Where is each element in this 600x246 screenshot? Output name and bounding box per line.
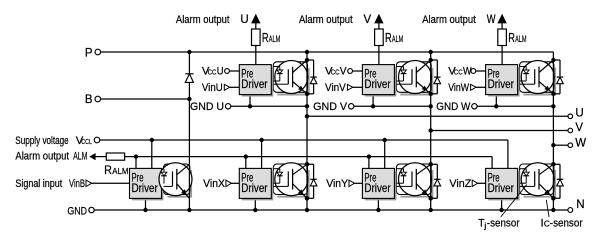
pre-driver box Z [488, 171, 519, 200]
alarm left arrow [89, 153, 95, 160]
wire brake emitter to N rail [188, 198, 190, 210]
wire low-side Vcc stub [507, 140, 509, 168]
freewheel diode Z [553, 163, 560, 165]
svg-text:VinV: VinV [325, 82, 346, 94]
IGBT circle U [275, 61, 308, 94]
svg-text:CC: CC [454, 68, 463, 77]
svg-text:CC: CC [331, 68, 340, 77]
svg-text:ALM: ALM [269, 34, 280, 44]
Tj sensor diode U [273, 66, 280, 68]
svg-text:VinU: VinU [202, 82, 223, 94]
IGBT symbol V [396, 83, 412, 85]
svg-text:VinZ: VinZ [449, 178, 471, 190]
svg-text:W: W [487, 14, 496, 26]
resistor RALM V [375, 29, 384, 46]
svg-text:U: U [240, 14, 248, 26]
wire N / GND rail [94, 209, 567, 211]
svg-text:Driver: Driver [488, 181, 514, 195]
svg-text:U: U [575, 108, 583, 120]
terminal GND [89, 207, 94, 212]
svg-text:VinX: VinX [203, 178, 225, 190]
svg-text:Signal input: Signal input [15, 178, 63, 190]
wire GND W line [477, 105, 553, 107]
pin VCCU [225, 69, 230, 74]
svg-text:U: U [217, 66, 224, 78]
pin VinY [349, 180, 354, 186]
pin GND W [472, 104, 477, 109]
wire W phase column [552, 94, 554, 165]
IGBT circle W [521, 61, 554, 94]
svg-text:V: V [575, 122, 583, 134]
svg-text:CC: CC [208, 68, 217, 77]
IGBT chip outline Z [524, 170, 556, 197]
svg-text:R: R [385, 31, 392, 45]
wire Z emitter to N rail [552, 198, 554, 210]
wire V phase column [430, 94, 432, 165]
pin VinU [224, 84, 229, 90]
wire low-side alarm stub [368, 157, 370, 169]
svg-text:ALM: ALM [112, 166, 128, 176]
svg-text:-sensor: -sensor [487, 217, 520, 229]
IGBT circle B [159, 163, 192, 196]
pin GND V [349, 104, 354, 109]
terminal B [95, 96, 101, 102]
wire ALM rail [125, 156, 493, 158]
IGBT symbol B [164, 185, 173, 187]
wire W collector from P rail [552, 52, 554, 60]
terminal U [568, 114, 573, 119]
svg-text:R: R [104, 165, 112, 177]
alarm output column U [255, 23, 257, 29]
IGBT symbol Y [396, 185, 412, 187]
pre-driver box U [242, 67, 273, 96]
terminal VCCL [94, 137, 100, 143]
alarm arrow W [497, 14, 506, 24]
wire low-side alarm stub [245, 157, 247, 169]
wire brake diode column P to B [188, 52, 190, 164]
svg-text:GND V: GND V [313, 101, 348, 113]
wire Vcc pin lead [352, 70, 362, 72]
IGBT circle V [399, 61, 432, 94]
svg-text:ALM: ALM [73, 151, 87, 163]
svg-text:Driver: Driver [364, 77, 390, 91]
wire high-side GND stub [372, 95, 374, 107]
wire high-side GND stub [495, 95, 497, 107]
freewheel diode W [553, 59, 560, 61]
wire low-side Vcc stub [151, 140, 153, 168]
wire Vin pin lead [476, 86, 486, 88]
wire GND U line [231, 105, 307, 107]
IGBT circle X [275, 163, 308, 196]
IGBT symbol X [273, 185, 288, 187]
wire low-side Vin lead [231, 182, 239, 184]
IGBT chip outline W [524, 68, 556, 95]
svg-text:W: W [575, 137, 586, 149]
terminal VinB input [86, 180, 92, 186]
IGBT chip outline B [168, 170, 192, 197]
pre-driver box B [132, 171, 163, 200]
wire VCCL rail [100, 139, 508, 141]
svg-text:V: V [340, 66, 347, 78]
wire Vcc pin lead [229, 70, 239, 72]
wire U phase column [306, 94, 308, 165]
wire low-side Vcc stub [261, 140, 263, 168]
terminal N [568, 208, 573, 213]
svg-text:Driver: Driver [241, 181, 267, 195]
terminal W [568, 143, 573, 148]
pre-driver box Y [365, 171, 396, 200]
pre-driver box V [365, 67, 396, 96]
wire Vcc pin lead [476, 70, 486, 72]
junction dots N rail [143, 208, 147, 212]
wire low-side Vin lead [354, 182, 362, 184]
wire W output line [553, 144, 567, 146]
wire low-side GND stub [254, 198, 256, 210]
wire Vin pin lead [230, 86, 240, 88]
wire VinB lead [91, 182, 129, 184]
svg-text:-sensor: -sensor [550, 217, 583, 229]
svg-text:Driver: Driver [241, 77, 267, 91]
Tj sensor diode V [396, 66, 403, 68]
freewheel diode Y [431, 163, 438, 165]
Tj sensor diode B [163, 168, 166, 170]
svg-text:VinB: VinB [69, 178, 85, 190]
wire V collector from P rail [430, 52, 432, 60]
wire low-side GND stub [377, 198, 379, 210]
wire P rail [101, 51, 554, 53]
brake freewheel diode [185, 73, 193, 75]
wire low-side alarm stub [135, 157, 137, 169]
IGBT symbol Z [520, 185, 535, 187]
svg-text:GND: GND [67, 206, 87, 218]
freewheel diode X [307, 163, 314, 165]
svg-text:Driver: Driver [132, 181, 158, 195]
svg-text:N: N [576, 199, 584, 211]
Tj sensor diode W [520, 66, 527, 68]
junction dots low-side emitters [305, 196, 309, 200]
svg-text:Alarm output: Alarm output [299, 14, 353, 26]
pin GND U [225, 104, 230, 109]
wire Y emitter to N rail [430, 198, 432, 210]
svg-text:ALM: ALM [515, 34, 526, 44]
pre-driver box W [488, 67, 519, 96]
svg-text:Alarm output: Alarm output [422, 14, 476, 26]
svg-text:GND U: GND U [190, 101, 224, 113]
IGBT circle Y [399, 163, 432, 196]
svg-text:GND W: GND W [436, 101, 470, 113]
IGBT chip outline U [277, 68, 308, 95]
svg-text:P: P [85, 48, 93, 60]
svg-text:V: V [364, 14, 372, 26]
junction dots ALM rail [134, 154, 138, 158]
Tj-sensor pointer line [501, 185, 527, 217]
Ic-sensor pointer line [546, 200, 549, 217]
wire V output line [431, 130, 568, 132]
pin VinW [471, 84, 476, 90]
resistor RALM W [498, 29, 507, 46]
wire U collector from P rail [306, 52, 308, 60]
IGBT circle Z [521, 163, 554, 196]
wire low-side alarm stub [491, 157, 493, 169]
alarm output column V [378, 23, 380, 29]
resistor RALM U [252, 29, 261, 46]
svg-text:W: W [463, 66, 472, 78]
svg-text:CCL: CCL [81, 139, 92, 146]
svg-text:B: B [85, 94, 93, 106]
Tj sensor diode X [273, 168, 280, 170]
freewheel diode U [307, 59, 314, 61]
junction dots low-side collectors [305, 162, 309, 166]
svg-text:Driver: Driver [488, 77, 514, 91]
junction dots VCCL rail [150, 138, 154, 142]
alarm arrow V [374, 14, 383, 24]
wire GND V line [354, 105, 431, 107]
pin VCCW [471, 69, 476, 74]
freewheel diode V [431, 59, 438, 61]
svg-text:Alarm output: Alarm output [15, 151, 69, 163]
wire B rail [101, 98, 190, 100]
svg-text:VinY: VinY [326, 178, 348, 190]
terminal V [568, 128, 573, 133]
svg-text:VinW: VinW [448, 82, 469, 94]
pin VCCV [348, 69, 353, 74]
svg-text:R: R [262, 31, 269, 45]
svg-text:Supply voltage: Supply voltage [15, 135, 68, 147]
wire U output line [307, 115, 568, 117]
junction dots GND/output lines [248, 104, 252, 108]
svg-text:ALM: ALM [392, 34, 403, 44]
wire low-side Vcc stub [384, 140, 386, 168]
Tj sensor diode Z [520, 168, 527, 170]
svg-text:Alarm output: Alarm output [176, 14, 230, 26]
junction dots on P rail [187, 50, 191, 54]
junction dot B rail / brake diode [187, 97, 191, 101]
wire low-side GND stub [145, 198, 147, 210]
pin VinZ [472, 180, 477, 186]
IGBT symbol U [273, 83, 288, 85]
alarm arrow U [251, 14, 260, 24]
IGBT symbol W [520, 83, 535, 85]
wire Vin pin lead [353, 86, 363, 88]
junction dots phase branch points [305, 114, 309, 118]
wire low-side Vin lead [477, 182, 485, 184]
wire X emitter to N rail [306, 198, 308, 210]
pin VinV [347, 84, 352, 90]
pre-driver box X [242, 171, 273, 200]
IGBT chip outline X [277, 170, 308, 197]
wire high-side GND stub [249, 95, 251, 107]
wire low-side GND stub [501, 198, 503, 210]
svg-text:Driver: Driver [364, 181, 390, 195]
Tj sensor diode Y [396, 168, 403, 170]
pin VinX [226, 180, 231, 186]
resistor RALM (common alarm) [106, 153, 124, 160]
terminal P [95, 49, 101, 55]
wire ALM arrow lead [95, 156, 106, 158]
svg-text:R: R [508, 31, 515, 45]
IGBT chip outline V [400, 68, 432, 95]
alarm output column W [501, 23, 503, 29]
IGBT chip outline Y [400, 170, 432, 197]
